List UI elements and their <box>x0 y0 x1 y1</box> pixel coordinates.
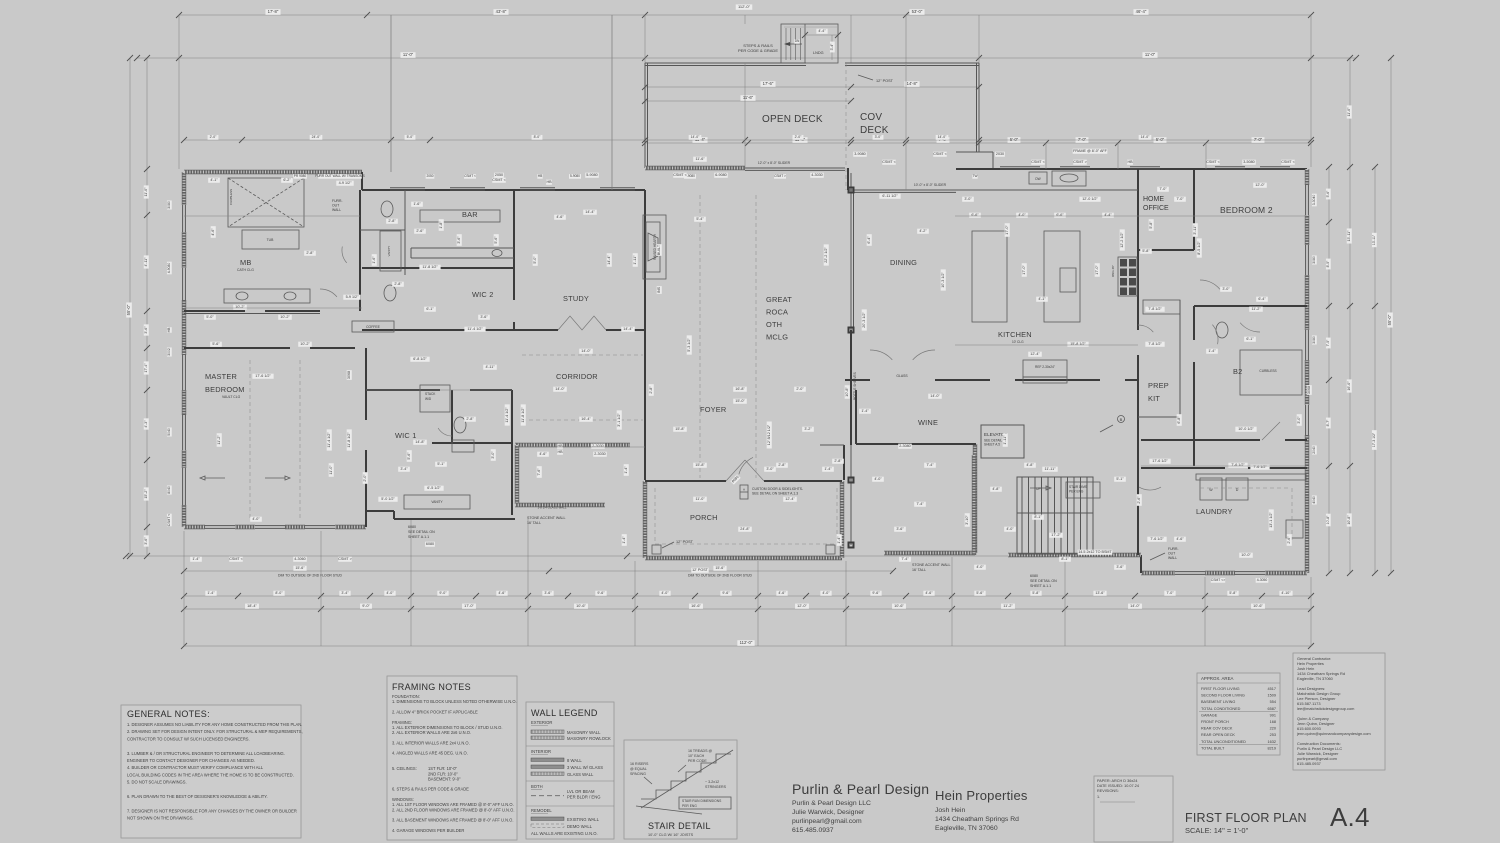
svg-text:4'-11": 4'-11" <box>144 257 148 267</box>
svg-text:7'-8 1/2": 7'-8 1/2" <box>1148 342 1162 346</box>
svg-text:3068: 3068 <box>347 371 351 379</box>
svg-text:5'-8": 5'-8" <box>1032 591 1040 595</box>
extension line <box>634 561 636 646</box>
bottom tie line <box>126 555 1135 557</box>
svg-text:15'-0": 15'-0" <box>735 399 745 403</box>
porch bottom stone wall <box>645 556 842 560</box>
svg-text:3'-11": 3'-11" <box>1193 225 1197 235</box>
svg-text:253: 253 <box>1270 733 1276 737</box>
svg-text:5'-6": 5'-6" <box>212 342 220 346</box>
extension line <box>527 519 529 646</box>
wine south wall <box>856 443 976 445</box>
svg-text:5'-6": 5'-6" <box>1326 190 1330 198</box>
svg-text:5'-1": 5'-1" <box>437 462 445 466</box>
svg-text:7'-0": 7'-0" <box>1176 197 1184 201</box>
svg-text:13'-6": 13'-6" <box>1095 591 1105 595</box>
svg-text:HB: HB <box>546 180 552 184</box>
extension line <box>978 15 980 63</box>
svg-text:CSMT <: CSMT < <box>1206 160 1220 164</box>
svg-text:5-9080: 5-9080 <box>570 174 580 178</box>
svg-text:4'-4": 4'-4" <box>1104 213 1112 217</box>
svg-text:24'-0": 24'-0" <box>312 135 321 139</box>
svg-text:8'-1": 8'-1" <box>1034 515 1042 519</box>
top dimension line overall <box>179 14 1311 16</box>
bedroom2 door arc <box>1200 280 1220 289</box>
approx area table <box>1197 673 1280 755</box>
svg-text:RNG 48": RNG 48" <box>1111 265 1115 277</box>
hall bath fixtures <box>454 417 466 433</box>
svg-text:2. ALLOW 4" BRICK POCKET IF AP: 2. ALLOW 4" BRICK POCKET IF APPLICABLE <box>392 709 478 714</box>
contractor contact block <box>1293 653 1385 770</box>
svg-text:VANITY: VANITY <box>431 500 443 504</box>
svg-text:STONE ACCENT WALL: STONE ACCENT WALL <box>527 516 565 520</box>
svg-text:BOTH: BOTH <box>531 784 543 789</box>
open deck railing left <box>644 63 646 168</box>
svg-text:4'-8": 4'-8" <box>1026 463 1034 467</box>
svg-text:4'-0": 4'-0" <box>386 591 394 595</box>
svg-text:DEMO WALL: DEMO WALL <box>567 824 593 829</box>
svg-text:SECOND FLOOR LIVING: SECOND FLOOR LIVING <box>1201 694 1245 698</box>
svg-text:7'-6 1/2": 7'-6 1/2" <box>1150 537 1164 541</box>
front door wall segments <box>645 480 726 482</box>
svg-text:3'-6": 3'-6" <box>457 236 461 244</box>
svg-text:10'-8": 10'-8" <box>1326 515 1330 524</box>
svg-text:ENGINEER TO CONTACT DESIGNER F: ENGINEER TO CONTACT DESIGNER FOR CHANGES… <box>127 758 255 763</box>
svg-text:2040: 2040 <box>1312 446 1316 454</box>
svg-text:2-3080: 2-3080 <box>899 444 910 448</box>
svg-text:CSMT <: CSMT < <box>673 173 687 177</box>
kitchen south wall <box>1015 379 1100 381</box>
svg-text:2-3030: 2-3030 <box>594 452 605 456</box>
left window labels <box>167 200 172 209</box>
b2 bath west wall <box>1193 306 1195 340</box>
svg-text:CSMT >: CSMT > <box>1073 160 1087 164</box>
svg-text:MASONRY WALL: MASONRY WALL <box>567 730 601 735</box>
MB bath south wall <box>184 310 245 312</box>
great room east structural line <box>850 173 852 545</box>
svg-text:10'-2": 10'-2" <box>300 342 310 346</box>
svg-text:1'-4": 1'-4" <box>192 557 200 561</box>
svg-text:4'-0": 4'-0" <box>874 477 882 481</box>
svg-text:1'-4": 1'-4" <box>622 536 626 544</box>
svg-text:7'-4": 7'-4" <box>926 463 934 467</box>
svg-text:2. ALL 2ND FLOOR WINDOWS ARE F: 2. ALL 2ND FLOOR WINDOWS ARE FRAMED @ 8'… <box>392 807 514 812</box>
svg-text:STONE ACCENT WALL: STONE ACCENT WALL <box>912 563 950 567</box>
range burners <box>1118 257 1137 296</box>
svg-text:2050: 2050 <box>495 173 503 177</box>
svg-text:2'-8": 2'-8" <box>306 251 314 255</box>
b2 bath south wall <box>1141 439 1260 441</box>
svg-text:6'-1": 6'-1" <box>426 307 434 311</box>
svg-text:55'-0": 55'-0" <box>1387 314 1392 325</box>
svg-text:A.4: A.4 <box>1330 802 1370 832</box>
svg-text:4040: 4040 <box>1312 496 1316 504</box>
window openings left exterior wall <box>181 205 187 232</box>
svg-text:DIM TO OUTSIDE OF 2ND FLOOR ST: DIM TO OUTSIDE OF 2ND FLOOR STUD <box>688 574 752 578</box>
svg-text:6080: 6080 <box>426 542 434 546</box>
svg-text:STACK: STACK <box>425 392 436 396</box>
svg-text:5'-0": 5'-0" <box>407 135 415 139</box>
svg-text:SEE DETAIL ON: SEE DETAIL ON <box>1030 579 1057 583</box>
master bedroom north wall <box>184 347 290 349</box>
svg-text:SEE DETAIL ON SHEET A.1.3: SEE DETAIL ON SHEET A.1.3 <box>752 492 798 496</box>
svg-text:1'-8": 1'-8" <box>439 221 443 229</box>
svg-text:CSMT <: CSMT < <box>229 557 243 561</box>
svg-text:10'-0 1/2": 10'-0 1/2" <box>1238 427 1254 431</box>
svg-text:OUT: OUT <box>1168 552 1175 556</box>
svg-text:3'-0": 3'-0" <box>1297 416 1301 424</box>
svg-text:2'-8": 2'-8" <box>834 459 842 463</box>
svg-text:6'-4": 6'-4" <box>1258 297 1266 301</box>
b2 door arcs <box>1212 325 1218 345</box>
stair dims box <box>1066 482 1100 498</box>
svg-text:7'-6": 7'-6" <box>537 468 541 476</box>
svg-text:11'-0": 11'-0" <box>1347 107 1351 117</box>
svg-text:17'-2": 17'-2" <box>1051 533 1061 537</box>
prep kit arch arc <box>1138 325 1153 332</box>
svg-text:4-3050: 4-3050 <box>1257 578 1268 582</box>
svg-text:CURBLESS: CURBLESS <box>229 189 233 205</box>
svg-text:5'-0": 5'-0" <box>206 315 214 319</box>
svg-text:8040: 8040 <box>167 486 171 494</box>
svg-text:TOTAL CONDITIONED: TOTAL CONDITIONED <box>1201 707 1241 711</box>
extension line <box>850 15 852 63</box>
svg-text:1. DIMENSIONS TO BLOCK UNLESS: 1. DIMENSIONS TO BLOCK UNLESS NOTED OTHE… <box>392 699 517 704</box>
svg-text:6'-4": 6'-4" <box>867 236 871 244</box>
svg-text:4'-2": 4'-2" <box>919 229 927 233</box>
cov deck railing right <box>978 63 980 152</box>
svg-text:5. CEILINGS:: 5. CEILINGS: <box>392 766 417 771</box>
window labels under top wall <box>293 174 307 179</box>
stairs upper flight <box>1017 477 1093 513</box>
svg-text:BASEMENT LIVING: BASEMENT LIVING <box>1201 700 1235 704</box>
svg-text:REAR OPEN DECK: REAR OPEN DECK <box>1201 733 1235 737</box>
extension line <box>951 557 953 646</box>
svg-text:TW: TW <box>973 174 978 178</box>
svg-text:D: D <box>1236 488 1239 492</box>
svg-text:lee@matchstickdesigngroup.com: lee@matchstickdesigngroup.com <box>1297 706 1354 711</box>
stack W/D closet <box>420 385 450 412</box>
svg-text:16 TREADS @: 16 TREADS @ <box>688 749 713 753</box>
svg-text:9'-6": 9'-6" <box>597 591 605 595</box>
svg-text:6'-5 1/2": 6'-5 1/2" <box>427 486 441 490</box>
svg-text:2-3030: 2-3030 <box>592 444 603 448</box>
svg-text:MASTER: MASTER <box>205 372 237 381</box>
svg-text:5'-0": 5'-0" <box>533 256 537 264</box>
svg-text:55'-0": 55'-0" <box>126 304 131 315</box>
svg-text:12'-2 1/2": 12'-2 1/2" <box>1120 232 1124 248</box>
svg-text:4'-10": 4'-10" <box>1281 591 1291 595</box>
svg-text:12'-0": 12'-0" <box>797 604 807 608</box>
svg-text:Josh Hein: Josh Hein <box>935 807 965 814</box>
svg-text:OTH: OTH <box>766 320 782 329</box>
svg-text:1. DESIGNER ASSUMES NO LIABILI: 1. DESIGNER ASSUMES NO LIABILITY FOR ANY… <box>127 722 302 727</box>
svg-text:3'-0": 3'-0" <box>964 197 972 201</box>
svg-text:3'-0": 3'-0" <box>875 135 883 139</box>
svg-text:6080: 6080 <box>1030 574 1038 578</box>
svg-text:TUB: TUB <box>267 238 275 242</box>
svg-text:KITCHEN: KITCHEN <box>998 330 1032 339</box>
svg-text:PR 9080: PR 9080 <box>294 174 307 178</box>
svg-text:3'-6": 3'-6" <box>144 326 148 334</box>
svg-text:jenn.quinn@quinnandcompanydesi: jenn.quinn@quinnandcompanydesign.com <box>1296 731 1371 736</box>
svg-text:5040: 5040 <box>167 428 171 436</box>
svg-text:1'-6": 1'-6" <box>372 256 376 264</box>
mb wc vanity <box>380 231 401 271</box>
svg-text:VAULT CLG: VAULT CLG <box>222 395 241 399</box>
rear stoop stone wall horizontal <box>884 551 975 555</box>
study south wall with double doors <box>514 329 558 331</box>
svg-text:5'-3 1/2": 5'-3 1/2" <box>687 338 691 352</box>
svg-text:SPACING: SPACING <box>630 772 646 776</box>
svg-text:PER CODE & GRADE: PER CODE & GRADE <box>738 48 778 53</box>
svg-text:14'-4": 14'-4" <box>585 210 595 214</box>
svg-text:FURR-: FURR- <box>1168 547 1179 551</box>
svg-text:FOYER: FOYER <box>700 405 726 414</box>
svg-text:3'-2": 3'-2" <box>804 427 812 431</box>
cov deck railing top <box>845 62 979 64</box>
svg-text:DIM TO OUTSIDE OF 2ND FLOOR ST: DIM TO OUTSIDE OF 2ND FLOOR STUD <box>278 574 342 578</box>
prep kitchen walls <box>1138 416 1180 418</box>
svg-text:Eagleville, TN 37060: Eagleville, TN 37060 <box>935 825 998 832</box>
svg-text:11'-0": 11'-0" <box>695 497 705 501</box>
svg-text:10'-6": 10'-6" <box>1253 604 1263 608</box>
svg-text:CSMT <: CSMT < <box>464 174 476 178</box>
svg-text:6'-8": 6'-8" <box>1177 416 1181 424</box>
svg-text:2'-6": 2'-6" <box>1137 496 1141 504</box>
svg-text:COV: COV <box>860 112 882 123</box>
svg-text:10'-8": 10'-8" <box>845 387 849 397</box>
svg-text:GLASS WALL: GLASS WALL <box>567 772 594 777</box>
svg-text:2. ALL EXTERIOR WALLS ARE 2x6: 2. ALL EXTERIOR WALLS ARE 2x6 U.N.O. <box>392 730 471 735</box>
svg-text:15'-6": 15'-6" <box>715 566 725 570</box>
toilet room walls <box>360 229 405 231</box>
svg-text:BUILT: BUILT <box>657 244 661 255</box>
cov deck to wing jog <box>956 151 993 153</box>
extension line <box>644 15 646 63</box>
svg-text:14'-0": 14'-0" <box>930 394 940 398</box>
MB bath east wall <box>359 190 361 311</box>
svg-text:4'-0": 4'-0" <box>252 517 260 521</box>
svg-text:11'-0": 11'-0" <box>403 52 414 57</box>
svg-text:2'-0": 2'-0" <box>363 474 367 482</box>
entry alcove stone wall bottom <box>515 503 605 507</box>
left dimension chain rooms <box>146 58 148 556</box>
svg-text:46'-4": 46'-4" <box>1136 9 1147 14</box>
svg-text:7'-0": 7'-0" <box>1254 137 1263 142</box>
svg-text:3'-4": 3'-4" <box>400 467 408 471</box>
bottom fine dimension chain <box>184 595 1311 597</box>
svg-text:3080: 3080 <box>1312 336 1316 344</box>
wic2/study divider <box>513 190 515 300</box>
svg-text:3'-6": 3'-6" <box>544 591 552 595</box>
svg-text:1'-4": 1'-4" <box>624 466 628 474</box>
svg-text:1'-4": 1'-4" <box>861 409 869 413</box>
vanity bottom <box>404 495 470 509</box>
svg-text:LVL OR BEAM: LVL OR BEAM <box>567 789 595 794</box>
svg-text:16' TALL: 16' TALL <box>912 568 926 572</box>
top tie dimension line <box>137 57 1356 59</box>
svg-text:KIT: KIT <box>1148 394 1160 403</box>
svg-text:11'-2": 11'-2" <box>1003 604 1013 608</box>
svg-text:3'-4": 3'-4" <box>830 43 834 51</box>
svg-text:15'-2": 15'-2" <box>144 489 148 499</box>
svg-text:10'-6": 10'-6" <box>576 604 586 608</box>
tub <box>242 230 299 249</box>
svg-text:INS: INS <box>657 286 661 293</box>
svg-text:DATE ISSUED: 10.07.24: DATE ISSUED: 10.07.24 <box>1097 784 1139 788</box>
svg-text:2'-0": 2'-0" <box>796 387 804 391</box>
svg-text:3'-6": 3'-6" <box>480 315 488 319</box>
svg-text:16'-4": 16'-4" <box>581 417 591 421</box>
svg-text:4'-0": 4'-0" <box>1018 213 1026 217</box>
svg-text:TOTAL BUILT: TOTAL BUILT <box>1201 746 1225 750</box>
svg-text:CSMT <: CSMT < <box>1281 160 1295 164</box>
bar counter <box>411 247 514 249</box>
svg-text:OUT: OUT <box>332 204 339 208</box>
svg-text:EXISTING WALL: EXISTING WALL <box>567 817 600 822</box>
svg-text:3'-4": 3'-4" <box>341 591 349 595</box>
svg-text:3. LUMBER & / OR STRUCTURAL EN: 3. LUMBER & / OR STRUCTURAL ENGINEER TO … <box>127 751 285 756</box>
elevator room <box>981 425 1024 458</box>
svg-text:5'-8": 5'-8" <box>1149 221 1153 229</box>
svg-text:GLASS: GLASS <box>896 374 908 378</box>
svg-text:@ EQUAL: @ EQUAL <box>630 767 647 771</box>
kitchen/prep divider <box>1137 169 1139 330</box>
svg-text:14'-8": 14'-8" <box>415 440 425 444</box>
svg-text:REVISIONS:: REVISIONS: <box>1097 789 1119 793</box>
svg-text:7'-4": 7'-4" <box>916 502 924 506</box>
svg-text:11'-0": 11'-0" <box>144 187 148 197</box>
svg-text:1-8 1/4 GLASS WALL: 1-8 1/4 GLASS WALL <box>537 506 566 510</box>
svg-text:11'-0": 11'-0" <box>329 465 333 475</box>
svg-text:CSMT <: CSMT < <box>1031 160 1045 164</box>
svg-text:16' TALL: 16' TALL <box>527 521 541 525</box>
svg-text:10'-8": 10'-8" <box>1347 515 1351 525</box>
svg-text:Hein Properties: Hein Properties <box>935 788 1028 803</box>
svg-text:~ 3-2x12: ~ 3-2x12 <box>705 780 719 784</box>
WIC1 north wall <box>366 389 440 391</box>
svg-text:5'-6": 5'-6" <box>407 452 411 460</box>
svg-text:B: B <box>1120 417 1123 422</box>
svg-text:112'-0": 112'-0" <box>740 640 753 645</box>
laundry W/D <box>1200 478 1222 500</box>
extension line <box>390 15 392 172</box>
svg-text:6'-1": 6'-1" <box>1246 337 1254 341</box>
svg-text:17'-0": 17'-0" <box>1005 225 1009 235</box>
svg-text:1'-11": 1'-11" <box>1003 435 1007 445</box>
mb vanity counter <box>224 289 310 303</box>
great room ceiling beams dashed <box>699 195 701 478</box>
extension line <box>845 561 847 646</box>
svg-text:SHEET A.5: SHEET A.5 <box>984 443 1000 447</box>
svg-text:14'-0": 14'-0" <box>938 135 947 139</box>
general notes box <box>121 705 301 838</box>
svg-text:4. GARAGE WINDOWS PER BUILDER: 4. GARAGE WINDOWS PER BUILDER <box>392 828 464 833</box>
scattered dimension labels <box>208 178 220 183</box>
svg-text:HOME: HOME <box>1143 196 1164 203</box>
svg-text:4-3030: 4-3030 <box>811 173 822 177</box>
svg-text:5'-0": 5'-0" <box>1010 137 1019 142</box>
posts on structural line <box>849 188 854 193</box>
interior dim web <box>184 215 360 217</box>
jog at bedroom SE corner <box>365 515 367 527</box>
svg-text:12" POST: 12" POST <box>676 540 694 544</box>
svg-text:6'-11 1/2": 6'-11 1/2" <box>882 194 898 198</box>
wall legend box <box>526 702 614 839</box>
svg-text:4'-6": 4'-6" <box>1176 537 1184 541</box>
svg-text:6'-6": 6'-6" <box>971 213 979 217</box>
extension line <box>410 519 412 646</box>
svg-text:PREP: PREP <box>1148 381 1169 390</box>
study double door zigzag <box>558 316 606 330</box>
svg-text:MB: MB <box>240 258 252 267</box>
svg-text:5'-0 1/2": 5'-0 1/2" <box>381 497 395 501</box>
svg-text:168: 168 <box>1270 720 1276 724</box>
svg-text:GENERAL NOTES:: GENERAL NOTES: <box>127 709 210 719</box>
svg-text:WALL: WALL <box>332 208 341 212</box>
svg-text:2'-8": 2'-8" <box>466 417 474 421</box>
svg-text:6-9080: 6-9080 <box>715 173 726 177</box>
svg-text:3. ALL BASEMENT WINDOWS ARE FR: 3. ALL BASEMENT WINDOWS ARE FRAMED @ 8'-… <box>392 818 514 823</box>
svg-text:ROCA: ROCA <box>766 308 788 317</box>
12 ft post porch <box>662 542 674 548</box>
extension line <box>611 15 613 190</box>
svg-text:4-9080: 4-9080 <box>167 263 171 274</box>
svg-text:2'-6": 2'-6" <box>1287 536 1291 544</box>
kitchen top counter <box>956 189 1138 191</box>
deck dimension line 17-6 <box>645 86 979 88</box>
svg-text:FRAMING NOTES: FRAMING NOTES <box>392 682 471 692</box>
svg-text:16'-0": 16'-0" <box>1347 381 1351 391</box>
bottle shelves divider <box>850 330 852 445</box>
svg-text:PER BLDR / ENG: PER BLDR / ENG <box>567 795 601 800</box>
svg-text:CATH CLG: CATH CLG <box>237 268 254 272</box>
right dimension chain outer <box>1390 58 1392 573</box>
svg-text:8'-7": 8'-7" <box>1326 419 1330 427</box>
elevator block west stone <box>972 455 976 555</box>
svg-text:6. PLAN DRAWN TO THE BEST OF D: 6. PLAN DRAWN TO THE BEST OF DESIGNER'S … <box>127 794 268 799</box>
stair steps drawing <box>641 754 731 799</box>
svg-text:CONTRACTOR TO CONSULT W/ SUCH: CONTRACTOR TO CONSULT W/ SUCH LICENSED E… <box>127 736 250 741</box>
svg-text:APPROX. AREA: APPROX. AREA <box>1201 676 1234 681</box>
extension line <box>1204 577 1206 646</box>
mb toilet <box>381 201 393 217</box>
svg-text:DW: DW <box>1035 177 1040 181</box>
svg-text:12' 8/12 1/2": 12' 8/12 1/2" <box>767 424 771 445</box>
svg-text:FURR OUT WALL W/ TRANSOMS: FURR OUT WALL W/ TRANSOMS <box>315 174 364 178</box>
svg-text:8 WALL: 8 WALL <box>567 758 582 763</box>
svg-text:17'-8": 17'-8" <box>268 9 279 14</box>
svg-text:2050: 2050 <box>426 174 433 178</box>
svg-text:11'-6": 11'-6" <box>695 157 705 161</box>
svg-text:3-3040: 3-3040 <box>1312 195 1316 206</box>
porch right stone wall <box>840 481 844 558</box>
svg-text:2'-0": 2'-0" <box>210 135 218 139</box>
master bedroom east wall <box>365 348 367 420</box>
svg-text:6080: 6080 <box>408 525 416 529</box>
svg-text:3. ALL INTERIOR WALLS ARE 2x4: 3. ALL INTERIOR WALLS ARE 2x4 U.N.O. <box>392 740 470 745</box>
svg-text:DN: DN <box>795 39 800 43</box>
svg-text:3'-1 1/2": 3'-1 1/2" <box>617 413 621 427</box>
svg-text:SCALE: 14" = 1'-0": SCALE: 14" = 1'-0" <box>1185 826 1249 835</box>
svg-text:4'-11": 4'-11" <box>485 365 495 369</box>
svg-text:11'-2": 11'-2" <box>217 435 221 445</box>
svg-text:1'-4": 1'-4" <box>824 467 832 471</box>
master bedroom bottom stone wall <box>184 525 366 529</box>
svg-text:17'-4": 17'-4" <box>144 363 148 373</box>
svg-text:REAR COV DECK: REAR COV DECK <box>1201 727 1233 731</box>
